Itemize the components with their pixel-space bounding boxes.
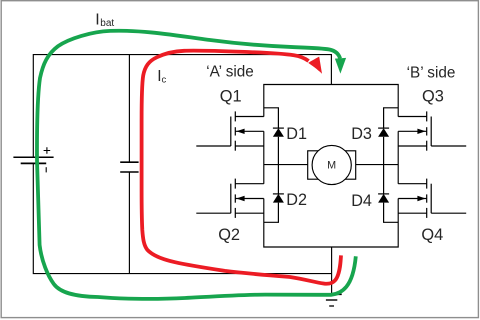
ground [323, 294, 341, 306]
capacitor C1 [120, 162, 138, 172]
svg-text:D2: D2 [286, 191, 307, 209]
transistor Q1 [196, 111, 263, 150]
svg-text:I: I [95, 11, 99, 28]
svg-text:‘A’ side: ‘A’ side [206, 63, 254, 80]
battery B1 [13, 147, 53, 172]
current loop I_bat (green) [37, 31, 356, 299]
svg-text:‘B’ side: ‘B’ side [407, 65, 456, 82]
label I_c [157, 68, 166, 86]
wire: H-bridge bottom rail [264, 199, 398, 248]
wire: ground stub [331, 247, 333, 293]
diode D1 [264, 108, 284, 165]
svg-text:bat: bat [100, 18, 114, 29]
wire: capacitor branch top [128, 55, 130, 163]
svg-text:M: M [327, 159, 336, 171]
svg-text:D4: D4 [351, 192, 372, 210]
diode D3 [378, 108, 398, 165]
transistor Q4 [398, 179, 466, 218]
wire: capacitor branch bottom [128, 172, 130, 274]
svg-text:c: c [162, 75, 167, 86]
diode D4 [378, 165, 398, 223]
svg-text:Q1: Q1 [220, 88, 242, 106]
diode D2 [264, 165, 284, 223]
svg-text:Q3: Q3 [422, 88, 444, 106]
wire: A-side motor lead [264, 164, 308, 166]
red arrowhead [308, 57, 322, 74]
svg-text:Q2: Q2 [218, 226, 240, 244]
label I_bat [95, 11, 114, 29]
green arrowhead [335, 58, 346, 74]
wire: battery bottom to bottom rail [33, 163, 331, 273]
transistor Q2 [196, 179, 263, 218]
current loop I_c (red) [142, 51, 341, 284]
wire: A-side mid vertical [263, 131, 265, 184]
wire: B-side mid vertical [397, 131, 399, 184]
wire: B-side motor lead [356, 164, 399, 166]
motor M [308, 145, 356, 184]
transistor Q3 [398, 111, 466, 150]
svg-text:D3: D3 [351, 125, 372, 143]
svg-text:D1: D1 [286, 125, 307, 143]
svg-text:Q4: Q4 [421, 226, 443, 244]
wire: battery loop top rail to supply stub [33, 55, 331, 158]
wire: H-bridge top rail [264, 85, 398, 117]
